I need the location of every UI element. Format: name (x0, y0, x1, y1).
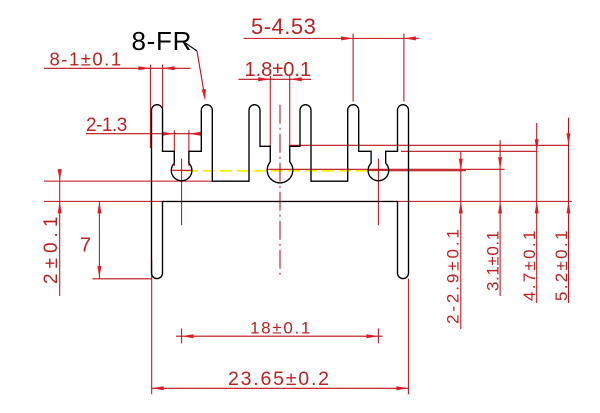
svg-text:1.8±0.1: 1.8±0.1 (245, 59, 312, 81)
svg-text:23.65±0.2: 23.65±0.2 (228, 368, 331, 390)
svg-text:5-4.53: 5-4.53 (251, 14, 316, 39)
svg-text:18±0.1: 18±0.1 (250, 319, 312, 338)
svg-text:5.2±0.1: 5.2±0.1 (552, 228, 571, 301)
svg-text:2-2.9±0.1: 2-2.9±0.1 (444, 226, 463, 324)
svg-text:8-1±0.1: 8-1±0.1 (50, 48, 123, 69)
svg-text:8-FR: 8-FR (132, 26, 193, 56)
svg-text:2-1.3: 2-1.3 (86, 115, 127, 136)
svg-text:7: 7 (80, 235, 91, 257)
svg-text:4.7±0.1: 4.7±0.1 (520, 228, 539, 301)
svg-text:3.1±0.1: 3.1±0.1 (484, 230, 503, 291)
svg-text:2±0.1: 2±0.1 (41, 212, 62, 284)
